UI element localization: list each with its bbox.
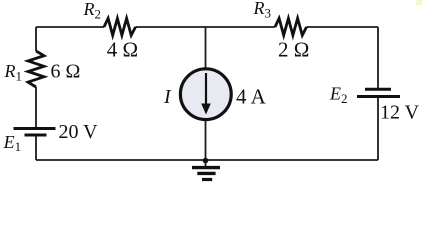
svg-text:4 A: 4 A: [236, 84, 267, 108]
svg-text:2 Ω: 2 Ω: [278, 37, 309, 61]
svg-text:20 V: 20 V: [59, 121, 99, 143]
svg-text:12 V: 12 V: [380, 101, 420, 123]
svg-text:6 Ω: 6 Ω: [51, 61, 81, 83]
svg-text:I: I: [163, 86, 172, 108]
svg-text:4 Ω: 4 Ω: [107, 37, 138, 61]
